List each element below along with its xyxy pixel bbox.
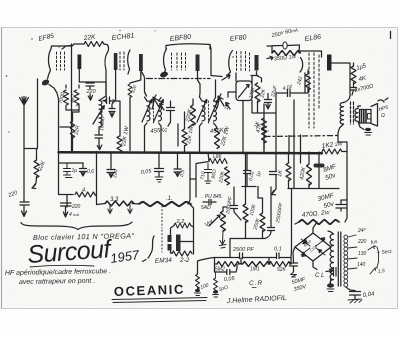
cap E ground hatch (155, 177, 163, 182)
wire 22ohm down (72, 112, 74, 151)
osc coil arrow (93, 106, 104, 124)
bridge rectifier diamond (295, 233, 331, 261)
signature cursive (226, 295, 287, 305)
cap G (189, 152, 191, 170)
ground 100b (213, 290, 218, 293)
label 4K7 rotated (70, 93, 78, 103)
label 10000 rotated (99, 117, 106, 132)
title underline (30, 265, 94, 267)
wire V5 anode right (332, 63, 354, 103)
label 100K rotated (249, 203, 258, 216)
speaker squiggle top (378, 98, 388, 102)
wire R1 left lead (52, 44, 85, 151)
cap F (174, 152, 181, 177)
label 950 rotated (211, 169, 219, 179)
wire V3 top plate feed (166, 44, 210, 49)
IF T1 frame wires (145, 92, 162, 126)
ground 0,04 (348, 299, 362, 303)
cap 50MF (290, 263, 298, 272)
tube V3 grid dashes (172, 53, 186, 70)
bottom net top rail (214, 257, 291, 259)
PU cap (203, 200, 216, 205)
volume pot (221, 211, 226, 231)
coupling cap wire (276, 73, 305, 189)
cap 220 bloc (61, 203, 72, 209)
label 2000PF rotated (225, 195, 234, 215)
label 220K rotated (185, 108, 194, 123)
resistor 220K on feed (225, 167, 230, 185)
cap 25000 vertical (268, 187, 275, 231)
transformer bottom wire (346, 287, 355, 291)
fuse label (370, 239, 378, 246)
tube V5 EL86 grid dashes (309, 53, 319, 128)
resistor R1 22K (84, 42, 104, 47)
cap 2500pF series (240, 253, 243, 259)
label 25000 rotated (275, 201, 285, 224)
wire 470 left down (295, 222, 299, 224)
label 8MF 50V (322, 163, 338, 182)
label 22K AGC (37, 160, 47, 173)
power transformer primary coil (330, 234, 333, 285)
cap 1u mid (109, 70, 116, 117)
wire 47K (263, 104, 265, 152)
resistor 52K rail2 (269, 262, 291, 267)
cap 250 arrow (88, 94, 92, 100)
wire 4K down (351, 83, 357, 96)
speaker ground (365, 128, 371, 132)
V3 diode arrow b (160, 104, 164, 111)
EM34 resistor 2.2 bottom (172, 251, 192, 256)
label 22uF rotated (270, 84, 279, 98)
EM34 dotted line (161, 206, 163, 252)
arrow at tank label (267, 56, 273, 59)
label 0,04 (362, 291, 375, 299)
title 1957 (109, 247, 140, 266)
label cath b rotated (259, 88, 267, 99)
label 1K2 2W (321, 140, 344, 150)
EM34 bars right (176, 235, 181, 252)
transformer taps (348, 235, 357, 269)
tube label EF80 (229, 34, 246, 43)
wire 347 to cap (341, 200, 347, 222)
osc top wire (79, 82, 106, 101)
resistor 220 v2 (128, 84, 132, 98)
label 220K rotated (218, 170, 226, 184)
cap to ground el86 (265, 94, 272, 110)
label 350ohm 1W (274, 54, 297, 62)
label cap D (140, 168, 152, 176)
resistor 4K vertical (351, 66, 356, 84)
label 50MF 350V (291, 277, 308, 293)
label cap C (112, 169, 120, 179)
bridge diodes (301, 238, 325, 257)
label 0,42 rotated (296, 76, 304, 87)
IF T1 tuning arrows (142, 99, 163, 122)
oscillator coil (99, 101, 102, 127)
wire 22K1W to bus (111, 101, 120, 136)
vertical avc left (96, 152, 98, 205)
wire 18K (190, 153, 227, 197)
V3 diode arrows (152, 95, 159, 109)
label 3.3 (110, 197, 119, 203)
label 2x700 ohm (353, 83, 374, 94)
rail mid right (288, 188, 339, 190)
output transformer primary (340, 103, 343, 125)
label 4K (358, 76, 367, 83)
antenna cap (20, 202, 29, 211)
CL cap bars (334, 268, 337, 277)
IF1 frame to bus (145, 126, 162, 152)
resistor grid el86 (306, 74, 311, 90)
tube V1 EF85 envelope curve (48, 46, 52, 79)
note line 2 (19, 278, 95, 286)
tube label EF85 (38, 33, 55, 43)
electrolytic 8MF (318, 152, 320, 163)
AGC dash-dot line (147, 78, 211, 80)
wire R1 right lead (104, 44, 109, 53)
speaker (358, 104, 378, 127)
output transformer core (351, 102, 354, 124)
osc coil bottom cap (95, 127, 103, 144)
label 5AD (201, 205, 211, 211)
resistor 100 vertical (196, 274, 200, 289)
resistor 22K 1W AVC (182, 129, 187, 146)
tuning eye EM34 squiggle (143, 236, 155, 262)
label coupling (282, 84, 293, 92)
label 220 bloc (71, 204, 81, 210)
bridge label (303, 239, 318, 252)
decoupling cap row: cap A (64, 163, 73, 178)
label 22K rotated (220, 125, 231, 147)
pot arrow (209, 215, 220, 226)
label 1K mid rotated (277, 169, 284, 177)
bloc arrow a (108, 205, 112, 214)
label C.R (249, 280, 263, 287)
V4 diode arrows (217, 94, 230, 109)
pot down ground (220, 230, 227, 248)
label bloc clavier (33, 231, 135, 242)
label 1u rotated (256, 171, 263, 178)
tube V2 grid dashes (120, 52, 124, 70)
wire left join (59, 195, 74, 208)
label 47K rotated (256, 122, 264, 133)
tube V2 anode bar b (139, 54, 143, 71)
electrolytic 8MF lead (318, 168, 320, 189)
tube label EL86 (304, 34, 321, 43)
cap 47 (103, 97, 111, 104)
anode tank left drop (272, 45, 322, 57)
anode tank top wire (267, 45, 299, 46)
label 30MF 50v (317, 192, 336, 210)
CL arrow (326, 269, 333, 273)
resistor 1K mid (270, 172, 277, 175)
resistor 100b vertical (214, 278, 218, 292)
anode tank resistor (272, 51, 300, 56)
label cap B (87, 169, 94, 175)
mark top right (390, 32, 392, 39)
wire 22K down arrow (32, 177, 37, 189)
label 1K rotated (224, 102, 232, 110)
label .1 (166, 196, 173, 202)
tube V2 anode bar a (114, 53, 118, 70)
tube V1 anode bar (78, 55, 82, 70)
label secteur (376, 249, 393, 256)
tube V4 grid dashes (237, 52, 250, 73)
tube V2 inner curve (128, 50, 130, 74)
AVC resistor 3.3 (105, 201, 134, 206)
tone bottom rail (230, 231, 271, 258)
osc ground arrow (97, 144, 102, 150)
label 2-2 bottom (179, 257, 190, 264)
AVC wire ends (97, 179, 194, 254)
IF T1 cap (167, 101, 175, 126)
wire cath network (252, 101, 276, 114)
resistor 22K AGC vertical (34, 160, 39, 178)
label 100b (218, 285, 229, 293)
tube label ECH81 (111, 33, 134, 42)
label 22ohm rotated (73, 125, 81, 137)
brace bloc clavier (21, 222, 132, 230)
tone ground arrow (272, 189, 277, 195)
wire bridge top to resistor (313, 222, 317, 270)
speaker fill (362, 111, 367, 123)
label 455Kc T2 (210, 128, 227, 135)
label 2500 PF (232, 247, 254, 253)
resistor R1 22K label (82, 34, 96, 42)
label 1K bottom (253, 120, 261, 128)
cap 0,04 (350, 292, 361, 300)
wire bus right end (342, 142, 347, 210)
wire 220K (178, 99, 193, 153)
note line 1 (5, 268, 111, 277)
resistor 5M2 rail2 (217, 262, 240, 267)
rail2 links (215, 258, 292, 264)
resistor 220K vertical (191, 105, 196, 125)
wire grid el86 (305, 70, 308, 93)
IF transformer T1 left coil (147, 101, 150, 121)
wire box to IF2 (228, 73, 236, 97)
wire tank to EL86 (300, 58, 303, 73)
label 2.2 top (176, 219, 185, 225)
pot label (204, 219, 215, 229)
long vertical left b (49, 85, 83, 195)
label 710 rotated (200, 171, 207, 180)
wire V2 anode to AGC (141, 71, 147, 96)
label 250 (86, 89, 97, 95)
ground 50MF (291, 272, 297, 277)
wire V4 anode down (251, 72, 262, 85)
wire 4. leads (95, 195, 97, 197)
IF T2 right coil (214, 101, 217, 121)
label 420K rotated (299, 166, 307, 180)
dash line mid right (265, 136, 338, 137)
mid tone top rail (242, 187, 263, 199)
bloc arrow b (128, 205, 132, 214)
ground 100 (195, 289, 200, 292)
scan specks (6, 30, 269, 133)
wire 250K (262, 198, 264, 239)
label HP (378, 105, 389, 119)
label cap A (72, 168, 78, 174)
label 1M rotated (58, 91, 66, 104)
cap C (107, 152, 115, 178)
wire secondary bottom (358, 122, 364, 130)
primary top wire (328, 231, 334, 234)
label 270K rotated (248, 86, 256, 100)
wire 1K mid (288, 136, 291, 189)
power transformer secondary circles (344, 235, 348, 287)
resistor 1M vertical (64, 90, 69, 105)
resistor 18K under bus (209, 159, 226, 164)
tube V2 ECH81 left curve (105, 53, 107, 97)
mains switch lower (370, 268, 378, 274)
cap 30MF (336, 200, 346, 211)
label 455Kc T1 (150, 128, 167, 135)
bottom net left hook (198, 258, 215, 275)
IF transformer T2 left coil (202, 101, 205, 121)
wire v2 220 down (129, 97, 131, 151)
antenna lead wire (23, 113, 25, 202)
IF T2 tuning arrows (197, 99, 218, 122)
IF T2 frame wires (200, 97, 217, 126)
CL label (315, 273, 324, 279)
coupling cap (288, 90, 291, 97)
resistor 1K2 2W (322, 149, 342, 154)
label 4K mid rotated (248, 171, 256, 182)
brand OCEANIC (114, 282, 186, 299)
label 1M2 (250, 267, 260, 273)
wire box down (242, 101, 244, 153)
cap 250 (86, 83, 94, 89)
tube V1 grid dashes (57, 52, 65, 70)
label 4mA (69, 212, 80, 218)
tube label EBF80 (169, 34, 191, 43)
wire V2 bar b down (130, 71, 141, 83)
cap B (80, 163, 87, 176)
resistor 22K below T2 (215, 128, 220, 148)
osc resistor joins (60, 85, 79, 127)
label 220 rotated (130, 84, 138, 94)
OCEANIC underline (112, 298, 207, 303)
rail3 0,05 (215, 264, 238, 275)
wire V4 grid arrow (210, 45, 230, 98)
AVC resistor .1 (139, 202, 191, 207)
resistor 22K 1W vertical (117, 136, 122, 152)
wire top feed to V1 (62, 46, 71, 50)
wire pot top (223, 207, 227, 211)
wire 4K mid (244, 153, 251, 187)
antenna tick (24, 79, 38, 160)
label 2,5 (377, 268, 385, 275)
mains switch upper (368, 246, 376, 250)
PU label (202, 194, 223, 200)
cap 710 (205, 164, 212, 184)
resistor 47K vertical (262, 127, 267, 143)
cap D (155, 152, 164, 176)
main HT bus (59, 152, 323, 153)
tube V4 EF80 envelope curve (228, 51, 233, 75)
label 22K 1W rotated (121, 125, 131, 147)
tube V5 anode bar (327, 55, 332, 71)
wire 100K (245, 153, 247, 239)
cap 0,1 series (277, 253, 280, 259)
resistor 1K mid zigzag (286, 163, 291, 181)
wire 420K (308, 152, 310, 189)
wire 1K to bus (263, 133, 265, 151)
label 18K (213, 154, 223, 160)
antenna arrow end (22, 211, 27, 217)
tube V3 EBF80 envelope curve (164, 49, 167, 72)
tube V4 anode bar (255, 55, 259, 71)
switch vertical wire (377, 247, 379, 267)
cap 220 arrow (63, 209, 67, 217)
tube V3 grid cap blob (160, 71, 168, 77)
anode tank fuse circle (283, 42, 287, 49)
EM34 wires (171, 226, 194, 254)
label 100 (200, 282, 210, 291)
output transformer secondary (355, 109, 358, 122)
wire tone right up (290, 189, 293, 265)
CL ground (327, 283, 334, 287)
power transformer core (338, 232, 341, 286)
resistor 4. hor (75, 192, 95, 197)
label EM34 (155, 257, 173, 265)
resistor 470 ohm 2W (299, 220, 339, 225)
EM34 resistor 2.2 top (174, 223, 191, 228)
cap 1u5 label (356, 63, 368, 72)
right verticals pair (294, 100, 301, 188)
resistor 1K bottom (262, 118, 267, 133)
resistor 1M2 rail2 (243, 262, 270, 267)
resistor 22ohm vertical (70, 121, 75, 138)
label 5M2 (215, 267, 225, 273)
label 470 ohm 2W (301, 209, 331, 219)
IF2 frame to bus (200, 126, 218, 152)
wire V3 anode down (198, 71, 201, 97)
resistor 250K vertical (260, 213, 265, 232)
resistor 270K vertical (255, 83, 260, 102)
label cap F (179, 169, 186, 177)
antenna symbol (20, 97, 29, 114)
tube V1 grid cap (42, 79, 49, 85)
IF T1 right coil (159, 101, 162, 121)
label 250K rotated (252, 217, 261, 231)
label 52K (277, 267, 287, 273)
title Surcouf (26, 235, 114, 269)
resistor 420K vertical (307, 164, 312, 185)
label 47 (104, 99, 115, 105)
EM34 bars left (168, 235, 172, 242)
box detector (236, 81, 252, 101)
label 0,05 (224, 276, 236, 283)
wire V1 anode down (78, 69, 80, 82)
wire primary bottom (338, 124, 347, 142)
resistor 4K7 vertical (74, 90, 79, 105)
tube V3 anode bar (196, 55, 200, 72)
resistor 100K vertical (243, 204, 248, 223)
label 0,1 (274, 247, 282, 253)
label 4. (82, 188, 87, 194)
label 250V 60mA (270, 27, 298, 39)
wire bridge left to cap (293, 247, 295, 263)
label 22K 1W rotated (186, 125, 195, 146)
cap 2000pF vertical (231, 187, 242, 220)
tap labels (357, 227, 367, 268)
label 220 antenna (7, 190, 19, 199)
